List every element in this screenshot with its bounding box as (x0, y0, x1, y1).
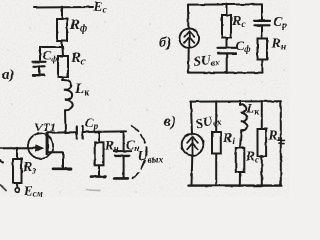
wire Rn branch top v (261, 101, 263, 129)
wire junction to Rc (62, 47, 65, 56)
capacitor Cf (33, 61, 46, 63)
wire left bottom b (187, 48, 189, 73)
wire to Rn (98, 132, 100, 142)
current source SUvx (b) (180, 29, 200, 49)
arrow of source b (188, 33, 190, 48)
wire gate to Rz (16, 148, 18, 159)
wire Cp to Rn (b) (261, 26, 263, 39)
wire to Cn (123, 131, 125, 150)
inductor Lk (v) (240, 104, 247, 130)
smudge under Rn ground (86, 189, 100, 192)
wire right branch top b (261, 4, 263, 20)
resistor Rf (57, 19, 67, 41)
terminal Esm (15, 188, 20, 193)
wire Ri to bottom v (215, 154, 217, 186)
svg-text:б): б) (159, 35, 171, 51)
wire Lk down to drain node (64, 110, 67, 132)
VT1 channel bar (46, 134, 49, 156)
wire Cf to ground (38, 67, 40, 75)
capacitor Cf (b) (218, 47, 236, 49)
wire Cp to output nodes (83, 130, 127, 133)
wire top rail v (191, 100, 281, 102)
wire Rz to terminal (16, 183, 18, 188)
scan noise specks (7, 2, 285, 193)
wire: +Ec supply rail (34, 6, 93, 9)
arrow of source v (192, 139, 194, 155)
paper background (0, 0, 289, 197)
wire Cf to bottom rail b (226, 54, 228, 73)
wire Rc to Lk (62, 77, 65, 80)
ground under Cn (115, 177, 128, 180)
ground under Cf (33, 74, 45, 76)
resistor Rn (95, 142, 104, 165)
svg-text:а): а) (2, 67, 15, 83)
svg-text:VT1: VT1 (35, 120, 56, 134)
wire left top b (187, 5, 189, 29)
resistor Ri (212, 132, 221, 154)
wire top rail b (188, 3, 262, 5)
node Uvyh output marker (dashed brace) (132, 126, 147, 179)
wire Rc to bottom v (239, 172, 241, 186)
wire Lk branch top v (239, 101, 241, 105)
speck bottom-left (1, 185, 7, 191)
wire left edge bottom v (191, 155, 194, 185)
capacitor Cp (b) (255, 20, 270, 22)
wire from rail to Rf (61, 7, 63, 19)
wire Cn to ground (123, 156, 125, 177)
wire gate lead (0, 147, 37, 149)
wire junction to Cf branch (40, 47, 62, 60)
VT1 gate arrow (36, 145, 44, 152)
resistor Rz (13, 159, 22, 183)
mark near right edge v (278, 139, 285, 141)
resistor Rn (b) (258, 39, 268, 60)
wire Ri branch top v (215, 102, 217, 133)
wire Rn to bottom v (261, 156, 263, 186)
resistor Rc (b) (222, 15, 231, 38)
wire Lk to Rc (v) (240, 131, 241, 148)
wire middle branch top b (226, 5, 228, 16)
ground under Rn (91, 175, 106, 178)
wire Rf to junction (61, 41, 63, 47)
wire right edge v (280, 101, 282, 185)
capacitor Cn (114, 150, 132, 152)
wire bottom rail v (189, 184, 281, 186)
svg-text:в): в) (164, 114, 176, 130)
wire drain node to Cp (47, 131, 77, 133)
wire left edge top v (191, 102, 192, 134)
ground under source (53, 168, 71, 171)
wire Rn to ground (98, 165, 100, 175)
speck left edge (0, 161, 3, 163)
inductor Lk (62, 80, 73, 110)
resistor Rc (58, 56, 68, 77)
current source SUvx (v) (182, 134, 204, 156)
wire VT1 source lead (49, 152, 64, 167)
wire junction blobs (16, 3, 264, 187)
wire Rn to bottom rail b (261, 60, 263, 73)
wire bottom rail b (188, 72, 263, 74)
capacitor Cp (coupling) (76, 127, 78, 139)
resistor Rn (v) (258, 129, 267, 156)
wire Rc to Cf (b) (226, 38, 228, 47)
resistor Rc (v) (236, 148, 245, 172)
